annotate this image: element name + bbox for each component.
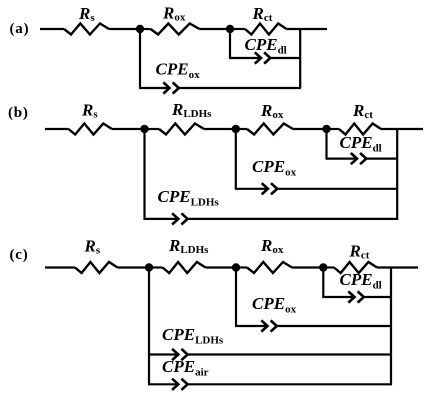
wire (a) node2 drop to CPEdl [229, 29, 231, 58]
CPE CPEdl (c) chevron 1 [348, 291, 354, 302]
wire (b) node3 to Rct [327, 128, 340, 130]
CPE CPEox (a) chevron 1 [163, 82, 169, 93]
CPE CPEdl (c) chevron 2 [358, 291, 364, 302]
CPE CPELDHs (c) chevron 2 [181, 349, 187, 360]
wire CPEdl (a) branch left [229, 57, 261, 59]
wire CPEox (b) branch right [277, 188, 398, 190]
node junction 1 (b) [140, 125, 148, 133]
CPE CPELDHs (b) chevron 2 [181, 213, 187, 224]
wire (b) node1 drop to CPELDHs [143, 129, 145, 220]
node junction 2 (b) [232, 125, 240, 133]
svg-text:(b): (b) [8, 105, 29, 121]
wire (a) Rs to node1 [109, 28, 140, 30]
CPE CPEair (c) chevron 1 [172, 379, 178, 390]
node junction 1 (c) [145, 263, 153, 271]
CPE CPEdl (a) chevron 1 [255, 52, 261, 63]
node junction 3 (b) [322, 125, 330, 133]
wire (b) Rct to output [381, 128, 423, 130]
wire (a) Rct to output [287, 28, 328, 30]
resistor RLDHs (b) [159, 124, 204, 135]
wire (b) input [45, 128, 69, 130]
wire CPEdl (a) branch right [270, 57, 301, 59]
wire (a) Rox to node2 [200, 28, 231, 30]
wire (b) RLDHs to node2 [204, 128, 236, 130]
wire (c) Rct to output [377, 266, 418, 268]
CPE CPEox (c) chevron 2 [271, 320, 277, 331]
CPE CPEdl (a) chevron 2 [264, 52, 270, 63]
CPE CPELDHs (b) chevron 1 [172, 213, 178, 224]
wire CPELDHs (b) branch right [187, 218, 398, 220]
wire CPEox (a) branch right [178, 87, 301, 89]
CPE CPEox (b) chevron 2 [271, 183, 277, 194]
svg-text:(a): (a) [10, 21, 30, 37]
node junction 1 (a) [136, 25, 144, 33]
wire (b) Rox to node3 [293, 128, 327, 130]
wire CPEdl (b) branch right [366, 158, 398, 160]
CPE CPEox (a) chevron 2 [173, 82, 179, 93]
resistor Rct (a) [245, 24, 287, 35]
wire (c) node2 to Rox [236, 266, 247, 268]
resistor Rs (c) [75, 262, 118, 273]
node junction 3 (c) [319, 263, 327, 271]
CPE CPELDHs (c) chevron 1 [172, 349, 178, 360]
wire (c) Rs to node1 [118, 266, 150, 268]
wire (c) node3 to Rct [323, 266, 334, 268]
wire CPEdl (c) branch right [363, 296, 392, 298]
svg-text:(c): (c) [10, 247, 29, 263]
wire CPELDHs (c) branch left [148, 353, 178, 355]
wire (a) input [40, 28, 64, 30]
wire (b) node3 drop to CPEdl [325, 129, 327, 159]
wire (a) node1 to Rox [140, 28, 151, 30]
resistor Rs (a) [64, 24, 109, 35]
wire (b) node1 to RLDHs [145, 128, 160, 130]
CPE CPEair (c) chevron 2 [181, 379, 187, 390]
wire (a) right vertical [299, 28, 301, 88]
wire (c) node1 to RLDHs [149, 266, 163, 268]
wire (b) right vertical [396, 128, 398, 220]
wire (c) Rox to node3 [292, 266, 323, 268]
resistor Rox (c) [247, 262, 292, 273]
resistor Rct (c) [334, 262, 377, 273]
resistor RLDHs (c) [163, 262, 206, 273]
wire (c) node1 drop to CPEair [148, 268, 150, 386]
wire (b) node2 to Rox [236, 128, 247, 130]
wire (b) Rs to node1 [112, 128, 145, 130]
wire CPEox (b) branch left [235, 188, 268, 190]
CPE CPEdl (b) chevron 2 [360, 153, 366, 164]
wire CPEox (a) branch left [139, 87, 169, 89]
resistor Rct (b) [339, 124, 381, 135]
wire CPELDHs (c) branch right [187, 353, 392, 355]
CPE CPEox (b) chevron 1 [262, 183, 268, 194]
wire (c) node2 drop to CPEox [235, 268, 237, 327]
wire CPEox (c) branch right [276, 325, 392, 327]
CPE CPEox (c) chevron 1 [261, 320, 267, 331]
wire (a) node1 drop to CPEox [139, 29, 141, 88]
resistor Rox (a) [151, 24, 200, 35]
resistor Rox (b) [247, 124, 293, 135]
wire (c) RLDHs to node2 [206, 266, 237, 268]
wire (b) node2 drop to CPEox [235, 129, 237, 189]
wire CPEair (c) branch right [187, 383, 392, 385]
node junction 2 (a) [226, 25, 234, 33]
wire (c) input [45, 266, 75, 268]
wire CPEdl (c) branch left [322, 296, 354, 298]
wire CPEdl (b) branch left [326, 158, 357, 160]
wire CPELDHs (b) branch left [144, 218, 179, 220]
wire (c) right vertical [390, 267, 392, 386]
node junction 2 (c) [232, 263, 240, 271]
wire CPEair (c) branch left [148, 383, 178, 385]
wire (a) node2 to Rct [230, 28, 245, 30]
wire CPEox (c) branch left [235, 325, 267, 327]
CPE CPEdl (b) chevron 1 [351, 153, 357, 164]
resistor Rs (b) [69, 124, 113, 135]
wire (c) node3 drop to CPEdl [322, 268, 324, 298]
